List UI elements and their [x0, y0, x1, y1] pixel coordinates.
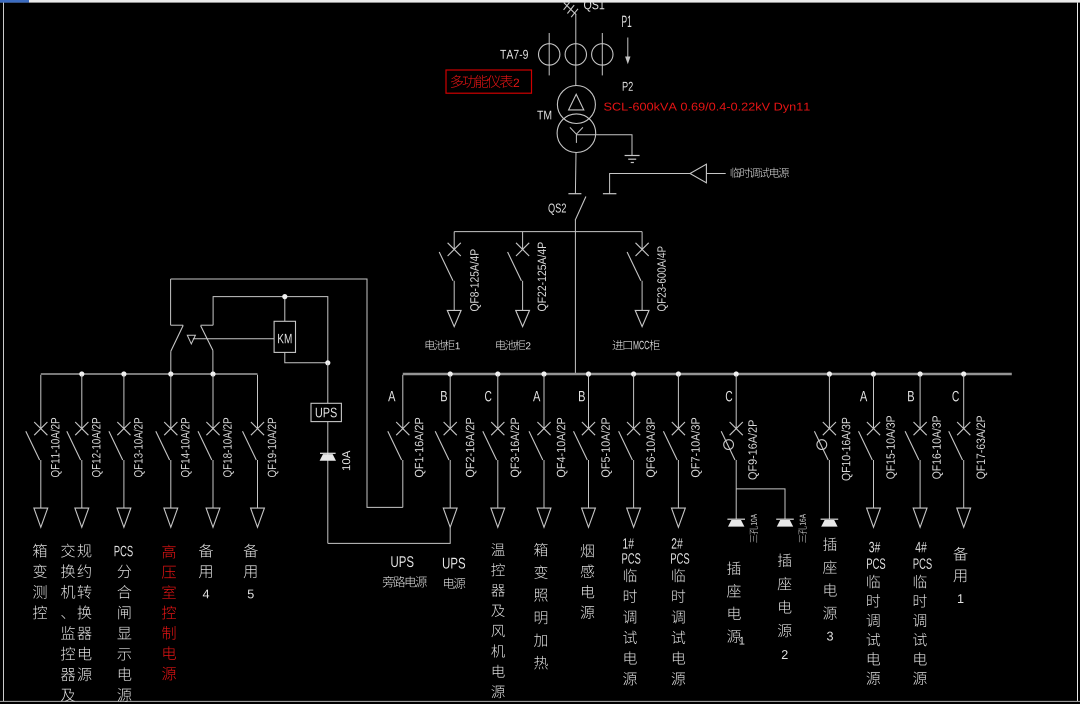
label TA7-9 [500, 50, 528, 59]
bottom border line [0, 700, 1080, 702]
breaker QF17 [949, 375, 971, 528]
window top bar [0, 0, 1080, 3]
UPS box [311, 403, 341, 421]
node bus junction QF7 [676, 371, 681, 376]
main bus [403, 373, 1012, 375]
label QF12-10A/2P [92, 418, 103, 477]
label 三孔10A [749, 514, 757, 543]
node bus junction QF10 [827, 371, 832, 376]
node rail junction x=123 [121, 371, 126, 376]
temp-power contact bar [603, 193, 617, 195]
socket QF10 [821, 519, 839, 526]
label QF19-10A/2P [267, 418, 278, 477]
label QF23-600A/4P [657, 246, 668, 311]
label 插座电源1 [727, 561, 744, 644]
wire bus-A to transfer contact [171, 279, 403, 507]
label 临时调试电源 [731, 168, 741, 178]
wire temp power riser [610, 174, 690, 194]
wire UPS box to plug [327, 422, 329, 544]
breaker QF16 [905, 375, 927, 528]
wire junction to UPS box [327, 363, 329, 404]
label QF2-16A/2P [465, 418, 476, 477]
label UPS电源 [443, 558, 465, 589]
QS2 fixed contact bar [568, 193, 581, 195]
transfer switch blade 1 [171, 325, 183, 351]
label 备用5 [244, 544, 258, 599]
CT TA7-9 phase A [539, 33, 560, 75]
label 高压室控制电源 [162, 545, 175, 559]
wire UPS output to transfer contact [213, 297, 328, 363]
label QF3-16A/2P [510, 418, 521, 477]
phase label A [388, 391, 395, 401]
phase label A [860, 391, 867, 401]
disconnector QS1 [564, 1, 578, 17]
label 交换机、监控器及 [61, 544, 75, 558]
label SCL-600kVA 0.69/0.4-0.22kV Dyn11 [604, 102, 810, 112]
label 2# PCS临时调试电源 [671, 538, 689, 685]
label QF9-16A/2P [748, 420, 759, 479]
phase label C [952, 391, 958, 402]
label QF10-16A/3P [841, 418, 852, 481]
label 箱变照明加热 [534, 543, 547, 557]
breaker QF19 [243, 375, 265, 528]
label QF18-10A/2P [223, 418, 234, 477]
breaker QF8 [439, 232, 461, 327]
node bus junction QF15 [871, 371, 876, 376]
label 备用1 [953, 547, 967, 603]
wire UPS line to QF2 [328, 527, 450, 543]
breaker QF5 [574, 375, 596, 528]
breaker QF10 (RCD) [814, 375, 836, 519]
wire blade2 to rail [212, 350, 214, 374]
phase label B [579, 391, 585, 401]
right border line [1077, 3, 1079, 702]
node KM tap [282, 294, 287, 299]
transfer interlock marker [187, 335, 195, 344]
label QS1 [584, 0, 604, 11]
breaker QF11 [26, 375, 48, 528]
wire blade1 to rail [170, 351, 172, 374]
label QF16-10A/3P [932, 416, 943, 479]
label 4# PCS临时调试电源 [913, 542, 932, 685]
wire feeder tap line [454, 231, 642, 233]
label 多功能仪表2 [451, 75, 519, 88]
label UPS [316, 408, 337, 418]
transformer TM winding 1 (delta) [557, 86, 595, 124]
contactor KM box [274, 321, 295, 352]
left border line [3, 3, 5, 702]
wire to contactor coil [193, 338, 274, 340]
label QF14-10A/2P [181, 418, 192, 477]
label 插座电源3 [823, 537, 837, 640]
breaker QF4 [529, 375, 551, 528]
breaker QF12 [67, 375, 89, 528]
breaker QF3 [483, 375, 505, 528]
wire QF9 socket tee [736, 489, 785, 519]
phase label C [726, 391, 732, 402]
label QF22-125A/4P [537, 242, 548, 311]
transfer switch right contact [201, 324, 214, 326]
phase label B [908, 391, 914, 401]
node bus junction QF6 [631, 371, 636, 376]
node UPS line junction [325, 360, 330, 365]
breaker QF9 (RCD) [721, 375, 743, 519]
label KM [278, 334, 291, 343]
label QF15-10A/3P [886, 416, 897, 479]
label QF7-10A/3P [691, 418, 702, 477]
label 1# PCS临时调试电源 [622, 538, 640, 685]
ground symbol [625, 156, 640, 163]
node rail junction x=213 [210, 371, 215, 376]
wire main line below QS1 [575, 14, 577, 85]
breaker QF13 [109, 375, 131, 528]
label 三孔16A [798, 514, 806, 543]
breaker QF22 [508, 232, 530, 327]
CT TA7-9 phase C [592, 33, 613, 75]
label 3# PCS临时调试电源 [866, 542, 885, 685]
transfer switch left contact [171, 279, 184, 325]
breaker QF14 [156, 375, 178, 528]
label QF5-10A/2P [601, 418, 612, 477]
breaker QF7 [663, 375, 685, 528]
wire temp power lead [706, 173, 725, 175]
node bus junction QF9 [734, 371, 739, 376]
label P1 [622, 16, 631, 27]
socket 三孔10A [727, 519, 745, 526]
label QF13-10A/2P [134, 418, 145, 477]
phase label A [533, 391, 540, 401]
label QF8-125A/4P [470, 249, 481, 311]
plug fuse 10A on UPS line [320, 453, 336, 460]
node bus junction QF3 [495, 371, 500, 376]
label QF17-63A/2P [976, 416, 987, 479]
label QF1-16A/2P [414, 418, 425, 477]
label TM [537, 111, 551, 120]
socket 三孔16A [776, 519, 794, 526]
node bus junction QF5 [586, 371, 591, 376]
label 烟感电源 [581, 544, 594, 558]
label PCS分合闸显示电源 [115, 546, 133, 702]
label QF4-10A/2P [556, 418, 567, 477]
node bus junction QF2 [448, 371, 453, 376]
node rail junction x=170 [168, 371, 173, 376]
wire KM to UPS feed [284, 297, 286, 322]
breaker QF23 [627, 232, 649, 327]
label 规约转换器电源 [78, 544, 92, 558]
window top bar blue segment [0, 0, 29, 3]
label 电池柜1 [426, 340, 460, 350]
wire transformer to QS2 [574, 152, 577, 193]
multifunction meter box [446, 70, 532, 93]
wire transformer neutral [576, 135, 632, 155]
node bus junction QF4 [541, 371, 546, 376]
node rail junction x=81 [79, 371, 84, 376]
arrow 临时调试电源 source [690, 164, 706, 183]
breaker QF15 [859, 375, 881, 528]
phase label C [485, 391, 491, 402]
breaker QF18 [198, 375, 220, 528]
arrow P1 [625, 38, 630, 65]
label 进口MCC柜 [613, 340, 660, 350]
CT TA7-9 phase B [565, 44, 586, 65]
breaker QF6 [619, 375, 641, 528]
left distribution rail [41, 373, 258, 375]
label UPS旁路电源 [383, 556, 427, 587]
wire QS2 to bus [574, 220, 576, 374]
label QS2 [548, 203, 566, 214]
phase label B [441, 391, 447, 401]
label 温控器及风机电源 [491, 543, 504, 556]
switch QS2 blade [575, 197, 586, 221]
label 备用4 [199, 544, 213, 599]
label QF11-10A/2P [51, 418, 62, 477]
label 箱变测控 [33, 544, 47, 558]
breaker QF2 [435, 375, 457, 528]
node bus junction QF16 [918, 371, 923, 376]
label P2 [623, 82, 633, 91]
label 插座电源2 [778, 553, 792, 659]
label 电池柜2 [496, 340, 530, 350]
label QF6-10A/3P [646, 418, 657, 477]
breaker QF1 [388, 375, 410, 508]
wire KM bottom [285, 352, 328, 362]
transfer switch blade 2 [201, 326, 213, 351]
transformer TM winding 2 (wye) [557, 114, 596, 153]
node bus junction QF17 [961, 371, 966, 376]
label 10A (UPS plug) [342, 451, 350, 471]
